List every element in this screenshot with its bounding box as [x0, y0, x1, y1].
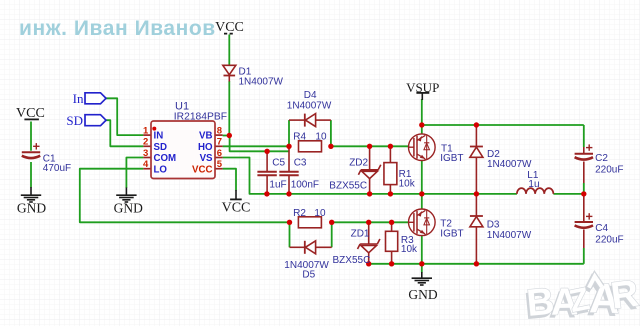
svg-text:R4: R4	[293, 131, 306, 142]
svg-text:100nF: 100nF	[291, 179, 319, 190]
svg-text:1N4007W: 1N4007W	[287, 101, 332, 112]
svg-text:COM: COM	[154, 153, 177, 164]
svg-text:220uF: 220uF	[595, 234, 623, 245]
svg-text:In: In	[73, 91, 84, 106]
svg-text:7: 7	[217, 137, 222, 148]
svg-text:10k: 10k	[401, 244, 418, 255]
svg-text:C2: C2	[595, 153, 608, 164]
svg-text:VS: VS	[200, 153, 213, 164]
svg-text:5: 5	[217, 159, 223, 170]
svg-text:470uF: 470uF	[43, 163, 71, 174]
svg-text:D2: D2	[487, 149, 500, 160]
svg-text:D5: D5	[302, 270, 315, 281]
svg-text:VCC: VCC	[222, 201, 251, 216]
svg-text:SD: SD	[66, 113, 83, 128]
svg-text:GND: GND	[114, 200, 143, 215]
svg-text:BZX55C: BZX55C	[333, 255, 371, 266]
svg-text:220uF: 220uF	[595, 164, 623, 175]
svg-text:R2: R2	[293, 208, 306, 219]
svg-text:HO: HO	[198, 142, 213, 153]
svg-text:1N4007W: 1N4007W	[487, 159, 532, 170]
svg-text:C5: C5	[272, 158, 285, 169]
svg-text:ZD1: ZD1	[351, 229, 370, 240]
svg-text:VCC: VCC	[192, 164, 212, 175]
svg-text:C4: C4	[595, 223, 608, 234]
svg-text:3: 3	[143, 148, 148, 159]
svg-text:SD: SD	[154, 142, 167, 153]
svg-text:GND: GND	[408, 287, 437, 302]
svg-text:IGBT: IGBT	[440, 153, 463, 164]
svg-text:10: 10	[314, 208, 326, 219]
svg-text:1N4007W: 1N4007W	[487, 230, 532, 241]
svg-text:IN: IN	[154, 131, 164, 142]
svg-text:2: 2	[143, 137, 148, 148]
svg-text:1N4007W: 1N4007W	[239, 77, 284, 88]
svg-text:8: 8	[217, 126, 222, 137]
svg-text:VCC: VCC	[215, 20, 244, 35]
svg-text:VB: VB	[199, 131, 212, 142]
svg-text:1: 1	[143, 126, 149, 137]
svg-text:10: 10	[315, 131, 327, 142]
svg-text:6: 6	[217, 148, 222, 159]
svg-text:R: R	[608, 273, 640, 318]
svg-text:10k: 10k	[399, 178, 416, 189]
svg-text:D3: D3	[487, 219, 500, 230]
svg-text:4: 4	[143, 159, 149, 170]
svg-text:1uF: 1uF	[269, 179, 286, 190]
svg-text:BZX55C: BZX55C	[329, 181, 367, 192]
svg-text:C3: C3	[294, 158, 307, 169]
svg-text:IR2184PBF: IR2184PBF	[174, 111, 227, 122]
svg-text:1u: 1u	[528, 179, 539, 190]
svg-text:ZD2: ZD2	[349, 158, 368, 169]
svg-text:GND: GND	[17, 200, 46, 215]
svg-text:LO: LO	[154, 164, 168, 175]
svg-text:IGBT: IGBT	[440, 229, 463, 240]
svg-text:инж. Иван Иванов: инж. Иван Иванов	[19, 17, 216, 40]
